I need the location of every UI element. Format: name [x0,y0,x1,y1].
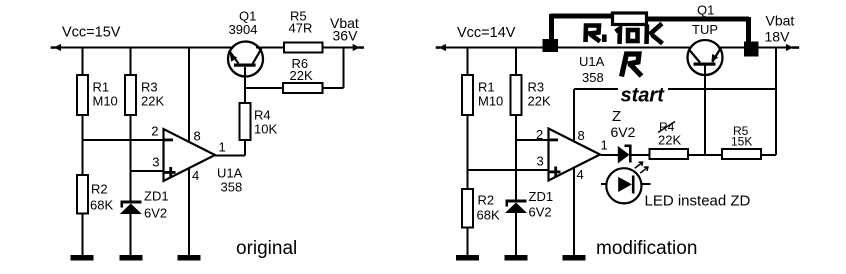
svg-text:3: 3 [152,155,159,170]
svg-text:10K: 10K [254,122,277,137]
svg-text:Vbat: Vbat [766,13,795,29]
svg-text:3904: 3904 [229,22,258,37]
svg-text:68K: 68K [90,198,113,213]
svg-text:modification: modification [596,238,697,259]
svg-text:ZD1: ZD1 [529,189,554,204]
svg-text:Vcc=14V: Vcc=14V [457,25,516,41]
svg-text:68K: 68K [477,208,500,223]
svg-text:TUP: TUP [692,22,718,37]
svg-text:R2: R2 [91,182,108,197]
svg-text:R2: R2 [478,192,495,207]
svg-text:6V2: 6V2 [529,205,552,220]
svg-text:2: 2 [536,127,543,142]
svg-text:ZD1: ZD1 [144,189,169,204]
svg-text:358: 358 [221,179,243,194]
svg-text:6V2: 6V2 [611,124,636,140]
svg-text:15K: 15K [731,135,752,149]
svg-text:4: 4 [192,168,199,183]
svg-text:22K: 22K [528,94,551,109]
svg-text:R1: R1 [478,80,495,95]
svg-text:8: 8 [578,128,585,143]
svg-text:47R: 47R [289,21,313,36]
svg-text:Vcc=15V: Vcc=15V [62,25,121,41]
svg-text:36V: 36V [333,28,359,44]
svg-text:4: 4 [577,167,584,182]
svg-text:8: 8 [194,129,201,144]
svg-text:22K: 22K [658,133,681,148]
svg-text:M10: M10 [93,94,118,109]
svg-text:1: 1 [219,140,226,155]
svg-text:original: original [236,238,297,259]
svg-text:Q1: Q1 [697,3,714,18]
svg-text:358: 358 [582,70,604,85]
svg-text:R3: R3 [141,80,158,95]
svg-text:18V: 18V [765,29,791,45]
svg-text:U1A: U1A [217,166,243,181]
svg-text:2: 2 [151,124,158,139]
svg-text:R3: R3 [528,80,545,95]
svg-text:Z: Z [612,108,621,125]
svg-text:1: 1 [601,138,608,153]
svg-text:LED instead ZD: LED instead ZD [645,193,751,210]
svg-text:R4: R4 [254,108,271,123]
svg-text:3: 3 [537,154,544,169]
svg-text:6V2: 6V2 [144,206,167,221]
svg-text:22K: 22K [141,94,164,109]
svg-text:U1A: U1A [579,54,605,69]
svg-text:start: start [621,85,666,107]
svg-text:R1: R1 [93,80,110,95]
svg-text:M10: M10 [478,94,503,109]
svg-text:22K: 22K [290,68,313,83]
